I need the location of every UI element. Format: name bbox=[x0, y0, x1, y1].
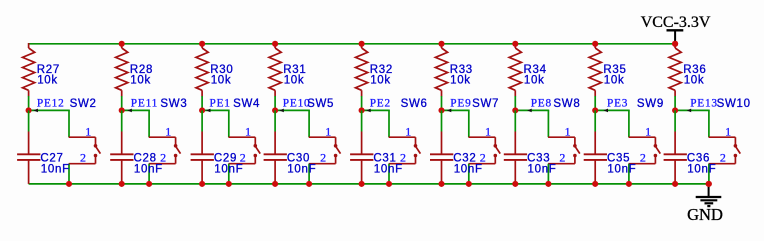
svg-text:2: 2 bbox=[559, 151, 565, 165]
wire switch SW9 to GND rail bbox=[628, 164, 630, 184]
resistor R33 10k bbox=[435, 43, 473, 96]
SW9 pin 1 bbox=[629, 136, 656, 138]
svg-text:10nF: 10nF bbox=[607, 163, 636, 175]
SW5 pin 1 bbox=[309, 136, 336, 138]
svg-text:10nF: 10nF bbox=[41, 163, 70, 175]
wire switch SW10 to GND rail bbox=[708, 164, 710, 184]
svg-text:VCC-3.3V: VCC-3.3V bbox=[641, 14, 711, 31]
switch SW4 bbox=[229, 98, 261, 165]
junction switch SW9 on GND rail bbox=[626, 181, 632, 187]
svg-text:SW10: SW10 bbox=[717, 98, 751, 110]
svg-text:SW5: SW5 bbox=[307, 98, 334, 110]
junction node PE10 bbox=[272, 107, 278, 113]
capacitor C31 10nF bbox=[350, 132, 403, 184]
svg-text:10nF: 10nF bbox=[134, 163, 163, 175]
junction C33 on GND rail bbox=[512, 181, 518, 187]
resistor R32 10k bbox=[356, 43, 394, 96]
junction switch SW10 on GND rail bbox=[706, 181, 712, 187]
wire R28 to node bbox=[121, 96, 123, 110]
node PE13 net label bbox=[687, 98, 718, 113]
svg-text:PE11: PE11 bbox=[131, 98, 158, 110]
svg-text:10k: 10k bbox=[684, 74, 705, 86]
junction switch SW5 on GND rail bbox=[306, 181, 312, 187]
wire switch SW8 to GND rail bbox=[547, 164, 549, 184]
wire R31 to node bbox=[274, 96, 276, 110]
junction switch SW6 on GND rail bbox=[386, 181, 392, 187]
svg-text:1: 1 bbox=[485, 125, 491, 139]
wire node to switch SW10 bbox=[675, 109, 710, 111]
junction node PE2 bbox=[359, 107, 365, 113]
wire node to switch SW7 bbox=[442, 109, 470, 111]
svg-text:2: 2 bbox=[720, 151, 726, 165]
junction node PE9 bbox=[438, 107, 444, 113]
junction switch SW3 on GND rail bbox=[146, 181, 152, 187]
svg-text:PE8: PE8 bbox=[531, 98, 552, 110]
SW2 pin 2 bbox=[95, 156, 97, 164]
wire switch SW3 to GND rail bbox=[148, 164, 150, 184]
junction switch SW2 on GND rail bbox=[66, 181, 72, 187]
capacitor C33 10nF bbox=[504, 132, 557, 184]
wire R35 to node bbox=[594, 96, 596, 110]
svg-text:1: 1 bbox=[85, 125, 91, 139]
svg-text:1: 1 bbox=[325, 125, 331, 139]
junction switch SW4 on GND rail bbox=[226, 181, 232, 187]
wire switch SW6 to GND rail bbox=[388, 164, 390, 184]
junction C28 on GND rail bbox=[119, 181, 125, 187]
svg-text:10k: 10k bbox=[524, 74, 545, 86]
SW2 lever bbox=[96, 147, 101, 154]
svg-text:SW3: SW3 bbox=[160, 98, 187, 110]
junction R31 top on VCC rail bbox=[272, 41, 278, 47]
capacitor C35 10nF bbox=[584, 132, 637, 184]
resistor R27 10k bbox=[23, 43, 61, 96]
node PE9 net label bbox=[447, 98, 472, 113]
junction R35 top on VCC rail bbox=[592, 41, 598, 47]
SW9 pin 2 bbox=[654, 156, 656, 164]
junction C32 on GND rail bbox=[438, 181, 444, 187]
svg-text:10nF: 10nF bbox=[287, 163, 316, 175]
wire switch SW5 to GND rail bbox=[308, 164, 310, 184]
SW2 pin 1 bbox=[69, 136, 96, 138]
resistor R31 10k bbox=[269, 43, 307, 96]
junction node PE11 bbox=[119, 107, 125, 113]
SW4 pin 1 bbox=[229, 136, 256, 138]
junction R33 top on VCC rail bbox=[438, 41, 444, 47]
SW8 lever bbox=[575, 147, 580, 154]
wire node to switch SW8 bbox=[515, 109, 549, 111]
capacitor C28 10nF bbox=[110, 132, 163, 184]
node PE12 net label bbox=[33, 98, 64, 113]
SW6 lever bbox=[416, 147, 421, 154]
svg-text:10k: 10k bbox=[284, 74, 305, 86]
wire node to switch SW4 bbox=[202, 109, 230, 111]
junction C35 on GND rail bbox=[592, 181, 598, 187]
SW3 lever bbox=[176, 147, 181, 154]
switch SW5 bbox=[307, 98, 340, 165]
junction node PE1 bbox=[199, 107, 205, 113]
svg-text:10k: 10k bbox=[370, 74, 391, 86]
junction R32 top on VCC rail bbox=[359, 41, 365, 47]
wire C31 to node bbox=[361, 110, 363, 131]
SW5 pin 2 bbox=[335, 156, 337, 164]
SW10 lever bbox=[736, 147, 741, 154]
SW8 pin 1 bbox=[548, 136, 575, 138]
switch SW2 bbox=[69, 98, 101, 165]
svg-text:10nF: 10nF bbox=[687, 163, 716, 175]
junction switch SW7 on GND rail bbox=[466, 181, 472, 187]
capacitor C29 10nF bbox=[191, 132, 244, 184]
junction R28 top on VCC rail bbox=[119, 41, 125, 47]
SW4 lever bbox=[256, 147, 261, 154]
SW5 lever bbox=[336, 147, 341, 154]
wire C33 to node bbox=[514, 110, 516, 131]
SW10 pin 2 bbox=[734, 156, 736, 164]
svg-text:PE3: PE3 bbox=[607, 98, 628, 110]
node PE11 net label bbox=[127, 98, 158, 113]
svg-text:10k: 10k bbox=[450, 74, 471, 86]
resistor R35 10k bbox=[589, 43, 627, 96]
junction C31 on GND rail bbox=[359, 181, 365, 187]
svg-text:PE12: PE12 bbox=[37, 98, 65, 110]
SW8 pin 2 bbox=[574, 156, 576, 164]
wire switch SW4 to GND rail bbox=[228, 164, 230, 184]
junction R36 top on VCC rail bbox=[672, 41, 678, 47]
wire C30 to node bbox=[274, 110, 276, 131]
svg-text:PE9: PE9 bbox=[450, 98, 471, 110]
SW7 lever bbox=[496, 147, 501, 154]
power symbol VCC-3.3V bbox=[641, 14, 711, 44]
wire node to switch SW5 bbox=[275, 109, 310, 111]
SW9 lever bbox=[656, 147, 661, 154]
wire R34 to node bbox=[514, 96, 516, 110]
wire R33 to node bbox=[441, 96, 443, 110]
svg-text:10k: 10k bbox=[211, 74, 232, 86]
capacitor C32 10nF bbox=[430, 132, 483, 184]
svg-text:10nF: 10nF bbox=[528, 163, 557, 175]
node PE10 net label bbox=[279, 98, 310, 113]
svg-text:10nF: 10nF bbox=[454, 163, 483, 175]
wire R32 to node bbox=[361, 96, 363, 110]
wire switch SW7 to GND rail bbox=[468, 164, 470, 184]
wire C36 to node bbox=[674, 110, 676, 131]
wire R36 to node bbox=[674, 96, 676, 110]
capacitor C27 10nF bbox=[17, 132, 70, 184]
resistor R34 10k bbox=[509, 43, 547, 96]
wire C28 to node bbox=[121, 110, 123, 131]
svg-text:SW9: SW9 bbox=[637, 98, 664, 110]
svg-text:SW8: SW8 bbox=[553, 98, 580, 110]
resistor R36 10k bbox=[669, 43, 707, 96]
junction node PE8 bbox=[512, 107, 518, 113]
svg-text:GND: GND bbox=[687, 205, 723, 224]
wire node to switch SW6 bbox=[362, 109, 390, 111]
svg-text:1: 1 bbox=[405, 125, 411, 139]
svg-text:1: 1 bbox=[245, 125, 251, 139]
wire C27 to node bbox=[28, 110, 30, 131]
SW7 pin 1 bbox=[469, 136, 496, 138]
svg-text:10nF: 10nF bbox=[214, 163, 243, 175]
resistor R28 10k bbox=[116, 43, 154, 96]
svg-text:SW7: SW7 bbox=[472, 98, 499, 110]
SW7 pin 2 bbox=[494, 156, 496, 164]
SW4 pin 2 bbox=[254, 156, 256, 164]
junction R34 top on VCC rail bbox=[512, 41, 518, 47]
capacitor C36 10nF bbox=[664, 132, 717, 184]
svg-text:2: 2 bbox=[80, 151, 86, 165]
wire R30 to node bbox=[201, 96, 203, 110]
junction R30 top on VCC rail bbox=[199, 41, 205, 47]
wire node to switch SW3 bbox=[122, 109, 150, 111]
switch SW10 bbox=[709, 98, 751, 165]
switch SW6 bbox=[389, 98, 428, 165]
junction node PE3 bbox=[592, 107, 598, 113]
SW3 pin 1 bbox=[149, 136, 176, 138]
junction C30 on GND rail bbox=[272, 181, 278, 187]
wire R27 to node bbox=[28, 96, 30, 110]
svg-text:1: 1 bbox=[725, 125, 731, 139]
SW3 pin 2 bbox=[175, 156, 177, 164]
node PE1 net label bbox=[206, 98, 231, 113]
svg-text:10nF: 10nF bbox=[374, 163, 403, 175]
svg-text:PE13: PE13 bbox=[690, 98, 718, 110]
svg-text:1: 1 bbox=[645, 125, 651, 139]
wire switch SW2 to GND rail bbox=[68, 164, 70, 184]
svg-text:1: 1 bbox=[165, 125, 171, 139]
node PE3 net label bbox=[603, 98, 628, 113]
capacitor C30 10nF bbox=[264, 132, 317, 184]
wire C35 to node bbox=[594, 110, 596, 131]
SW6 pin 2 bbox=[415, 156, 417, 164]
wire node to switch SW9 bbox=[595, 109, 630, 111]
wire C29 to node bbox=[201, 110, 203, 131]
svg-text:10k: 10k bbox=[130, 74, 151, 86]
wire bottom GND rail bbox=[29, 183, 709, 185]
svg-text:10k: 10k bbox=[604, 74, 625, 86]
switch SW9 bbox=[629, 98, 664, 165]
SW6 pin 1 bbox=[389, 136, 416, 138]
wire C32 to node bbox=[441, 110, 443, 131]
resistor R30 10k bbox=[196, 43, 234, 96]
svg-text:SW4: SW4 bbox=[233, 98, 260, 110]
node PE8 net label bbox=[527, 98, 552, 113]
junction GND stem / switch 9 return on rail bbox=[706, 181, 712, 187]
junction node PE13 bbox=[672, 107, 678, 113]
switch SW3 bbox=[149, 98, 188, 165]
svg-text:SW6: SW6 bbox=[401, 98, 428, 110]
ground GND bbox=[687, 184, 723, 224]
junction C29 on GND rail bbox=[199, 181, 205, 187]
SW10 pin 1 bbox=[709, 136, 736, 138]
svg-text:2: 2 bbox=[640, 151, 646, 165]
svg-text:2: 2 bbox=[320, 151, 326, 165]
junction switch SW8 on GND rail bbox=[545, 181, 551, 187]
wire node to switch SW2 bbox=[29, 109, 70, 111]
switch SW8 bbox=[548, 98, 580, 165]
svg-text:SW2: SW2 bbox=[70, 98, 97, 110]
junction C36 on GND rail bbox=[672, 181, 678, 187]
switch SW7 bbox=[469, 98, 501, 165]
node PE2 net label bbox=[366, 98, 391, 113]
wire top VCC rail bbox=[29, 43, 676, 45]
svg-text:10k: 10k bbox=[37, 74, 58, 86]
junction node PE12 bbox=[26, 107, 32, 113]
svg-text:1: 1 bbox=[565, 125, 571, 139]
svg-text:PE1: PE1 bbox=[210, 98, 231, 110]
junction VCC stem on rail bbox=[672, 41, 678, 47]
svg-text:PE2: PE2 bbox=[370, 98, 391, 110]
